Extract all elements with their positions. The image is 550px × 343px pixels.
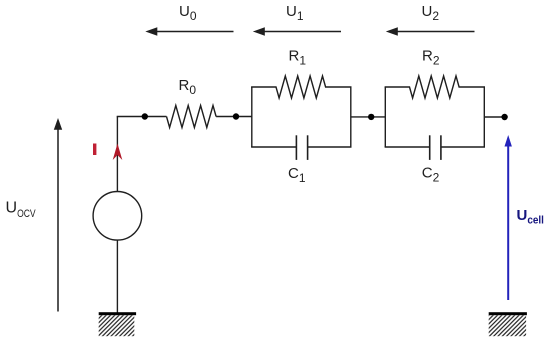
- ground right: [489, 312, 527, 336]
- resistor R1 top branch: [251, 76, 351, 98]
- wire right terminal: [484, 116, 504, 118]
- svg-text:Ucell: Ucell: [517, 207, 544, 227]
- wire between R1C1 and R2C2 blocks: [351, 116, 386, 118]
- capacitor C1 bottom branch wires: [251, 146, 296, 148]
- wire main left segment: [117, 116, 167, 118]
- label I: [93, 144, 96, 156]
- wire below source: [116, 240, 118, 313]
- svg-text:R2: R2: [422, 47, 440, 67]
- svg-text:R1: R1: [289, 47, 307, 67]
- R1C1 block left edge wire: [251, 87, 253, 147]
- svg-text:C2: C2: [422, 165, 440, 185]
- node dot 2: [233, 113, 239, 119]
- svg-text:U2: U2: [422, 3, 440, 23]
- node dot 1: [142, 113, 148, 119]
- capacitor C2 bottom branch wires: [385, 146, 430, 148]
- R2C2 block right edge wire: [483, 87, 485, 147]
- svg-text:C1: C1: [288, 165, 306, 185]
- voltage source U_OCV circle: [93, 192, 142, 241]
- ground left: [99, 312, 136, 336]
- voltage arrow U_cell: [505, 135, 512, 300]
- wire top-left vertical: [116, 117, 118, 192]
- voltage arrow U_OCV: [54, 118, 62, 312]
- resistor R2 top branch: [385, 76, 485, 98]
- svg-text:R0: R0: [179, 77, 197, 97]
- R1C1 block right edge wire: [350, 87, 352, 147]
- node dot 3: [368, 114, 374, 120]
- R2C2 block left edge wire: [384, 87, 386, 147]
- voltage arrow U1: [253, 27, 341, 36]
- current arrowhead I: [113, 144, 123, 161]
- voltage arrow U0: [145, 27, 233, 36]
- svg-text:U0: U0: [179, 3, 197, 23]
- svg-text:UOCV: UOCV: [6, 200, 37, 220]
- capacitor C1 plates: [295, 135, 297, 160]
- svg-text:U1: U1: [286, 3, 304, 23]
- node dot 4: [501, 114, 507, 120]
- wire between R0 and R1C1 block: [216, 116, 252, 118]
- resistor R0: [167, 106, 217, 128]
- capacitor C2 plates: [429, 135, 431, 160]
- voltage arrow U2: [386, 27, 475, 36]
